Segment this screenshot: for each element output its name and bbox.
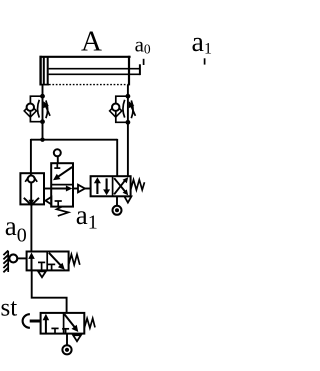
one-way flow control valve (right) (110, 94, 136, 125)
one-way flow control valve (left) (24, 94, 50, 124)
wire to shuttle valve top (30, 139, 32, 176)
main valve supply stem (116, 196, 118, 206)
wire cylinder left port (42, 85, 44, 97)
st valve supply stem (66, 334, 68, 346)
wire to main valve top-left port (116, 139, 118, 176)
node junction (40, 138, 44, 142)
a0 position tick (143, 59, 145, 65)
pressure source (main valve) (113, 206, 122, 215)
valve a0 (3/2 roller limit valve) (27, 252, 80, 278)
main directional valve 4/2 (91, 176, 145, 196)
wire shuttle to a1 valve (44, 188, 51, 190)
roller actuator a0 (wall + roller) (3, 251, 26, 273)
svg-text:st: st (1, 295, 18, 322)
wire left line down (42, 122, 44, 140)
exhaust (main valve) (124, 196, 131, 202)
svg-text:A: A (81, 26, 102, 58)
valve a1 (3/2 roller limit valve, vertical) (46, 149, 74, 216)
wire shuttle bottom to valve a0 (30, 204, 32, 251)
shuttle valve (quick exhaust element) (20, 173, 44, 205)
valve st (3/2 push-button) (41, 313, 95, 341)
wire horizontal manifold (31, 139, 117, 141)
wire a0 valve to st valve (32, 270, 67, 313)
a1 position tick (204, 58, 206, 64)
pressure source (st valve) (62, 345, 71, 354)
pilot line a1 to main valve (73, 188, 78, 190)
pneumatic pilot triangle (78, 185, 85, 193)
cylinder A (double-acting) (40, 56, 140, 86)
push button actuator (23, 314, 41, 328)
wire cylinder right port (127, 85, 129, 96)
wire right line down to main valve (127, 122, 129, 176)
